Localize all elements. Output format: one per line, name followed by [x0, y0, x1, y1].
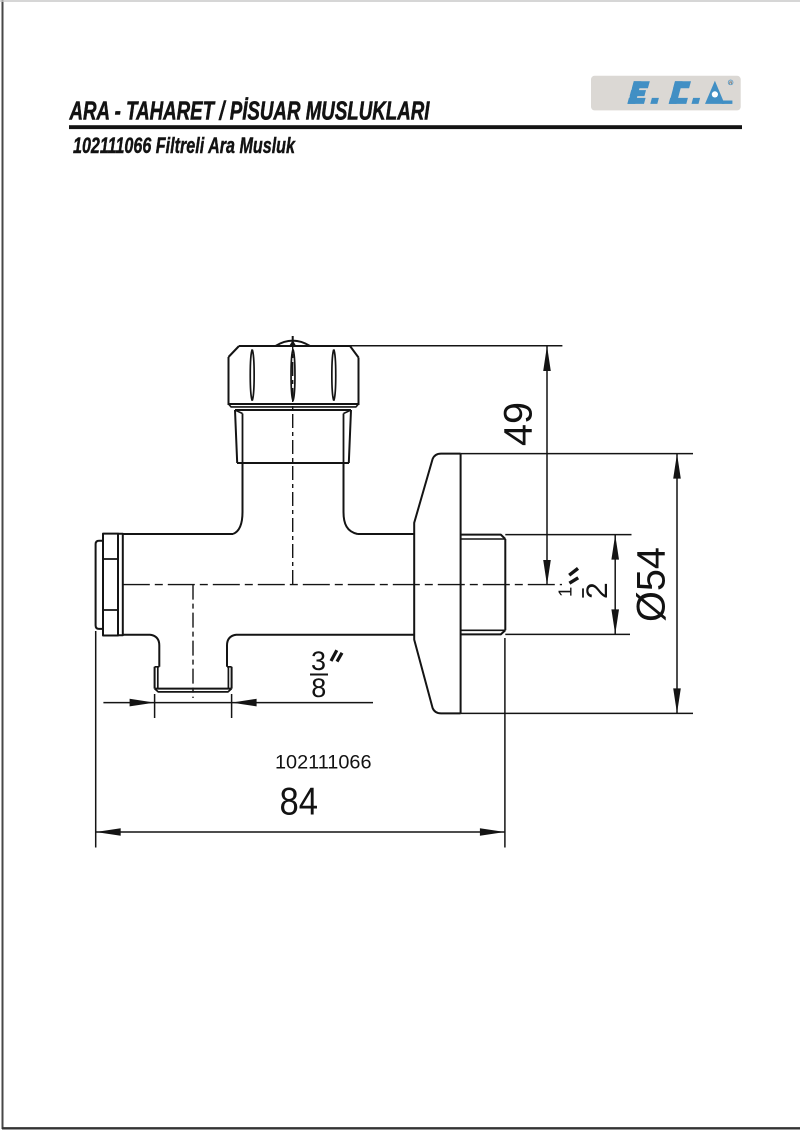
bottom outlet end face	[155, 688, 232, 690]
page border left	[2, 0, 4, 1129]
hex cap bottom chamfer band	[229, 404, 359, 407]
svg-text:2: 2	[581, 582, 614, 599]
dim text 38 fraction bar	[310, 674, 328, 676]
arrow 84 left	[96, 828, 121, 836]
dim 54 line	[676, 454, 678, 714]
dim 38 right extension line	[231, 694, 233, 718]
arrow 49 down	[543, 560, 551, 585]
body bottom line left with fillet	[123, 635, 160, 667]
bonnet side edges	[235, 410, 351, 463]
ECA logo dot after C	[692, 98, 701, 104]
ECA logo registered mark	[728, 80, 733, 85]
outlet crest bottom	[461, 630, 506, 634]
body top line right	[358, 533, 415, 535]
centerline handle vertical	[292, 336, 294, 585]
hex cap dome arc	[276, 341, 311, 346]
dim 84 right extension line	[504, 638, 506, 848]
rosette face line	[460, 454, 462, 714]
arrow 54 up	[673, 454, 681, 479]
body top line left	[123, 533, 233, 535]
dim 38 line	[103, 702, 373, 704]
svg-text:8: 8	[311, 673, 326, 703]
dim text half fraction bar	[582, 588, 584, 597]
svg-text:1: 1	[554, 587, 575, 597]
svg-text:ARA - TAHARET / PİSUAR MUSLUKL: ARA - TAHARET / PİSUAR MUSLUKLARI	[69, 98, 430, 126]
ECA logo dot after E	[650, 98, 659, 104]
bonnet corner chamfers	[236, 410, 351, 413]
hex cap facet lens 1	[250, 350, 254, 401]
ECA logo letter E	[627, 81, 650, 104]
dim 38 left extension line	[154, 694, 156, 718]
ECA logo letter C	[669, 81, 691, 104]
dim 84 line	[96, 831, 505, 833]
dim half top extension line	[505, 534, 631, 536]
page border top	[0, 0, 800, 2]
hex cap facet lens 3	[332, 350, 336, 401]
rosette outline	[414, 454, 460, 714]
dim text half inch marks	[569, 568, 578, 583]
bottom outlet step	[155, 666, 232, 668]
centerline body horizontal	[123, 584, 562, 586]
dim 54 top extension line	[461, 453, 693, 455]
svg-text:102111066 Filtreli Ara Musluk: 102111066 Filtreli Ara Musluk	[73, 133, 296, 158]
svg-text:84: 84	[280, 781, 319, 824]
neck left with flare	[233, 463, 243, 534]
left nut outline	[103, 534, 118, 636]
arrow half up	[611, 535, 619, 560]
page border bottom	[2, 1127, 800, 1129]
dim 54 bottom extension line	[461, 712, 693, 714]
arrow 54 down	[673, 688, 681, 713]
arrow 38 left-pointing-right	[130, 699, 155, 707]
body bottom line right with fillet	[227, 635, 414, 667]
dim half line	[614, 535, 616, 635]
svg-text:102111066: 102111066	[275, 752, 372, 774]
bonnet top edge	[235, 409, 351, 411]
dim 49 line	[546, 346, 548, 585]
centerline bottom outlet	[192, 585, 194, 698]
bottom outlet thread sides	[155, 667, 232, 689]
hex cap center tick	[292, 336, 294, 346]
ECA logo box	[591, 76, 741, 111]
bottom outlet tip chamfer	[155, 689, 232, 692]
left olive cap	[96, 541, 103, 629]
arrow half down	[611, 609, 619, 634]
hex cap top edge	[239, 345, 350, 347]
dim half bottom extension line	[505, 633, 630, 635]
svg-text:R: R	[729, 81, 732, 85]
outlet root top	[461, 538, 506, 540]
arrow 84 right	[480, 828, 505, 836]
left washer line	[118, 534, 123, 635]
svg-text:3: 3	[311, 646, 326, 676]
outlet crest top	[461, 535, 506, 539]
bonnet facet lines	[243, 414, 344, 464]
left nut facet lines	[103, 559, 118, 610]
arrow 38 right-pointing-left	[232, 699, 257, 707]
bottom outlet inner thread lines	[158, 667, 229, 689]
hex cap side edges	[229, 357, 359, 404]
outlet end face	[504, 539, 506, 630]
dim 49 top extension line	[350, 345, 562, 347]
hex cap corner chamfers	[229, 346, 359, 358]
dim text 38 inch marks	[331, 650, 342, 661]
svg-text:Ø54: Ø54	[630, 547, 674, 622]
bonnet bottom edge	[237, 462, 349, 464]
outlet root bottom	[461, 629, 506, 631]
hex cap facet lens 2	[291, 350, 295, 401]
svg-text:49: 49	[497, 402, 541, 446]
dim 84 left extension line	[95, 631, 97, 848]
ECA logo letter A	[705, 81, 725, 104]
title underline	[69, 125, 742, 129]
hex cap dome wedge	[289, 340, 296, 346]
neck right with flare	[344, 463, 358, 534]
arrow 49 up	[543, 346, 551, 371]
hex cap bottom edge	[228, 403, 360, 405]
